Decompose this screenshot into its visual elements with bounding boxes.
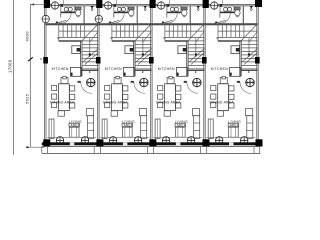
front door gaps xyxy=(70,142,75,145)
column grid bubble wall1 side xyxy=(42,15,49,22)
top columns xyxy=(44,0,50,8)
bottom front wall band xyxy=(42,142,262,145)
svg-text:17000: 17000 xyxy=(7,59,12,73)
porch edge line xyxy=(42,146,260,148)
unit 4 interior xyxy=(205,6,258,145)
unit 3 interior xyxy=(151,6,204,145)
outer dimension line 17000 xyxy=(13,0,15,155)
porch step line xyxy=(42,152,260,154)
bottom columns xyxy=(43,139,262,146)
wall stub nubs xyxy=(61,4,223,7)
party wall 4 xyxy=(203,6,205,142)
left wall tick xyxy=(40,58,42,60)
party wall 1 xyxy=(44,4,46,146)
party wall 5 xyxy=(256,4,258,146)
party wall 2 xyxy=(97,6,99,142)
porch side edges xyxy=(42,147,260,154)
dim tick mid xyxy=(28,57,33,61)
top exterior wall xyxy=(45,3,257,5)
unit 2 interior xyxy=(98,6,151,145)
party wall 3 xyxy=(150,6,152,142)
column grid bubble wall2 side xyxy=(95,15,102,22)
svg-text:4000: 4000 xyxy=(25,31,30,42)
page background xyxy=(0,0,275,155)
dim arrow top xyxy=(30,4,34,6)
svg-text:5625: 5625 xyxy=(25,93,30,104)
inner dimension line xyxy=(29,4,31,147)
unit 1 interior xyxy=(45,6,98,145)
dim arrow bottom xyxy=(26,146,30,148)
extension line stubs above wall xyxy=(63,0,222,4)
mid-wall column blobs xyxy=(43,57,259,64)
dim connector top xyxy=(30,3,45,5)
column grid bubbles top xyxy=(51,2,217,9)
dim connector bottom xyxy=(30,146,44,148)
